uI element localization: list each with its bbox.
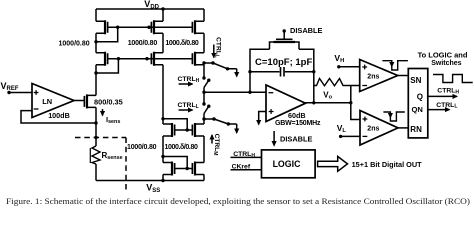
svg-text:GBW=150MHz: GBW=150MHz — [275, 120, 321, 127]
svg-text:CTRLM: CTRLM — [212, 134, 220, 156]
svg-text:CTRLH: CTRLH — [437, 88, 459, 96]
svg-text:60dB: 60dB — [288, 111, 306, 120]
svg-text:Figure. 1: Schematic of the in: Figure. 1: Schematic of the interface ci… — [6, 197, 470, 206]
svg-text:CTRLL: CTRLL — [178, 102, 199, 110]
svg-text:DISABLE: DISABLE — [290, 26, 323, 35]
svg-text:Isens: Isens — [106, 115, 120, 125]
svg-text:100dB: 100dB — [48, 111, 70, 120]
svg-text:DISABLE: DISABLE — [280, 135, 313, 144]
svg-text:1000.δ/0.80: 1000.δ/0.80 — [165, 144, 198, 151]
svg-text:C=10pF; 1pF: C=10pF; 1pF — [255, 57, 312, 68]
svg-text:VSS: VSS — [146, 183, 160, 194]
svg-text:800/0.35: 800/0.35 — [94, 97, 123, 106]
svg-text:CKref: CKref — [232, 164, 251, 171]
svg-text:CTRLH: CTRLH — [233, 151, 255, 159]
svg-text:VL: VL — [337, 123, 347, 134]
svg-text:VDD: VDD — [144, 0, 159, 10]
svg-text:VH: VH — [334, 53, 344, 64]
svg-text:Q: Q — [417, 93, 423, 102]
svg-text:15+1 Bit Digital OUT: 15+1 Bit Digital OUT — [352, 160, 422, 169]
svg-text:1000/0.80: 1000/0.80 — [127, 144, 157, 151]
svg-text:LN: LN — [42, 97, 52, 106]
svg-text:Vo: Vo — [323, 90, 332, 100]
svg-text:QN: QN — [412, 105, 423, 114]
svg-text:Rsense: Rsense — [102, 151, 123, 161]
svg-text:CTRLL: CTRLL — [436, 102, 457, 110]
svg-text:2ns: 2ns — [367, 125, 379, 132]
svg-text:1000/0.80: 1000/0.80 — [59, 40, 90, 47]
svg-text:RN: RN — [410, 125, 422, 134]
svg-text:To LOGIC and: To LOGIC and — [418, 51, 468, 60]
svg-text:LOGIC: LOGIC — [273, 159, 302, 169]
svg-text:SN: SN — [410, 76, 421, 85]
svg-text:VREF: VREF — [1, 81, 19, 92]
svg-text:CTRLH: CTRLH — [178, 76, 200, 84]
svg-text:1000/0.80: 1000/0.80 — [128, 40, 158, 47]
svg-text:1000.δ/0.80: 1000.δ/0.80 — [165, 40, 198, 47]
svg-text:2ns: 2ns — [367, 73, 379, 80]
svg-text:Switches: Switches — [431, 60, 461, 67]
svg-text:CTRLL: CTRLL — [214, 37, 222, 58]
